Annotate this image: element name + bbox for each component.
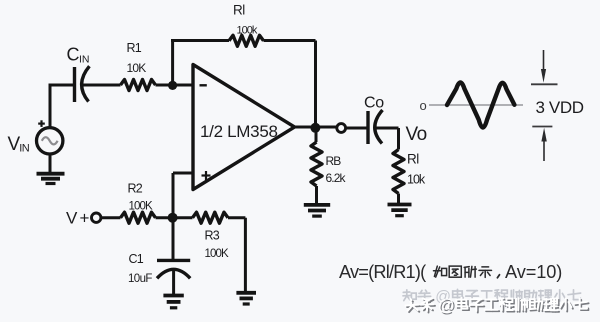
wire: [171, 39, 229, 42]
watermark zhihu @ (gray): [403, 289, 581, 306]
node output junction: [310, 123, 320, 133]
svg-text:10K: 10K: [127, 61, 147, 75]
svg-text:R3: R3: [205, 228, 220, 242]
wire: [49, 85, 74, 128]
label R3: [205, 228, 220, 242]
svg-text:CIN: CIN: [67, 45, 90, 66]
wire: [228, 218, 245, 292]
wire: [294, 126, 337, 129]
capacitor C1: [157, 260, 190, 278]
ground (below Rl): [388, 205, 412, 216]
svg-text:Vo: Vo: [406, 124, 427, 145]
wire: [172, 218, 175, 260]
wire: [315, 186, 318, 204]
resistor RB: [311, 142, 322, 186]
ground (below R3): [236, 293, 256, 304]
resistor Rl (feedback): [229, 35, 264, 46]
label Rl value 10k: [407, 173, 426, 187]
svg-text:100K: 100K: [129, 201, 153, 213]
wire: [82, 84, 121, 87]
label C1 value 10uF: [128, 273, 152, 285]
wire: [101, 216, 121, 219]
wire: [173, 173, 192, 218]
annotation sine wave: [447, 83, 514, 128]
ground (below VIN): [37, 174, 65, 184]
svg-text:1/2 LM358: 1/2 LM358: [200, 122, 278, 141]
label + polarity of VIN: [38, 120, 45, 127]
svg-text:100K: 100K: [205, 248, 229, 260]
label R3 value 100K: [205, 248, 229, 260]
terminal (open circle at output): [337, 124, 346, 133]
resistor R1: [121, 80, 156, 91]
label C1: [129, 252, 144, 266]
wire: [172, 269, 175, 294]
svg-text:Rl: Rl: [233, 3, 245, 18]
wire: [375, 128, 399, 150]
label 1/2 LM358: [200, 122, 278, 141]
label V+: [66, 209, 90, 228]
label Rl value 100k: [237, 25, 258, 37]
label Rl (load): [407, 152, 419, 167]
pin + (non-inverting input): [202, 171, 211, 180]
label formula Av=(Rl/R1)( ruchu suoshi, Av=10): [339, 262, 562, 282]
svg-text:o: o: [420, 98, 427, 113]
wire: [397, 194, 400, 204]
svg-text:10uF: 10uF: [128, 273, 152, 285]
terminal (open circle at V+): [92, 213, 101, 222]
op-amp U1 1/2 LM358: [193, 65, 295, 190]
node bias junction: [168, 213, 178, 223]
label Rl: [233, 3, 245, 18]
label Co: [364, 95, 384, 112]
svg-text:Co: Co: [364, 95, 384, 112]
wire: [346, 127, 368, 130]
waveform axis line: [429, 104, 523, 106]
wire: [314, 41, 317, 127]
svg-text:10k: 10k: [407, 173, 426, 187]
svg-text:Av=(Rl/R1)(: Av=(Rl/R1)(: [339, 262, 426, 282]
svg-text:VIN: VIN: [8, 134, 30, 155]
wire: [264, 39, 316, 42]
svg-text:3 VDD: 3 VDD: [536, 98, 584, 117]
svg-text:6.2k: 6.2k: [326, 171, 347, 185]
dimension arrow (down): [541, 50, 546, 83]
svg-text:R2: R2: [128, 181, 143, 195]
wire: [171, 41, 174, 86]
dimension tick (peak level): [531, 83, 558, 85]
label R1 value 10K: [127, 61, 147, 75]
ground (below C1): [163, 296, 183, 308]
svg-text:Av=10): Av=10): [505, 262, 562, 282]
label Vo: [406, 124, 427, 145]
watermark toutiao @ (white embossed): [406, 297, 589, 316]
dimension arrow (up): [541, 128, 546, 161]
svg-text:@: @: [438, 297, 455, 315]
dimension tick (trough level): [532, 126, 552, 128]
label CIN: [67, 45, 90, 66]
ground (below RB): [304, 205, 330, 216]
wire: [156, 84, 193, 87]
label R2: [128, 181, 143, 195]
label 3 VDD: [536, 98, 584, 117]
source VIN (AC signal source): [37, 128, 63, 154]
label R2 value 100K: [129, 201, 153, 213]
svg-text:R1: R1: [127, 41, 142, 55]
svg-text:C1: C1: [129, 252, 144, 266]
resistor R3: [193, 212, 229, 223]
svg-text:RB: RB: [326, 154, 342, 168]
wire: [156, 216, 193, 219]
wire: [49, 154, 52, 172]
svg-text:Rl: Rl: [407, 152, 419, 167]
label VIN: [8, 134, 30, 155]
label o (waveform axis): [420, 98, 427, 113]
resistor Rl (load): [393, 150, 404, 194]
capacitor Co: [368, 110, 383, 144]
label R1: [127, 41, 142, 55]
wire: [315, 128, 318, 142]
svg-text:100k: 100k: [237, 25, 258, 37]
node inverting input junction: [168, 81, 177, 90]
pin - (inverting input): [200, 84, 207, 86]
capacitor CIN: [75, 66, 90, 102]
svg-text:V+: V+: [66, 209, 90, 228]
label RB: [326, 154, 342, 168]
resistor R2: [121, 212, 156, 223]
label RB value 6.2k: [326, 171, 347, 185]
